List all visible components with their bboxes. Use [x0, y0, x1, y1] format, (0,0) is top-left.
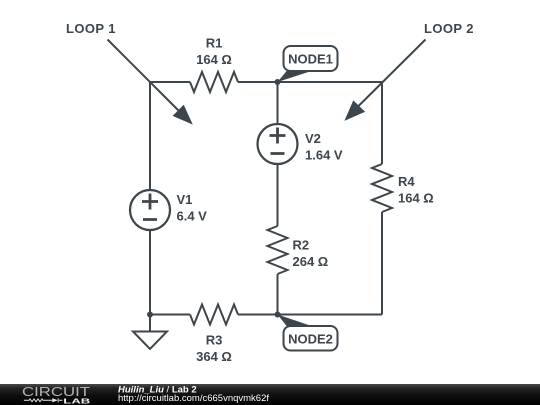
svg-text:R1: R1 [206, 36, 223, 51]
svg-text:NODE2: NODE2 [288, 332, 333, 347]
svg-text:1.64 V: 1.64 V [305, 148, 343, 163]
svg-text:R2: R2 [293, 238, 310, 253]
svg-text:NODE1: NODE1 [288, 52, 333, 67]
svg-text:LOOP 1: LOOP 1 [66, 21, 116, 36]
svg-text:V2: V2 [305, 131, 321, 146]
svg-text:6.4 V: 6.4 V [177, 209, 208, 224]
svg-text:164 Ω: 164 Ω [196, 52, 232, 67]
svg-text:164 Ω: 164 Ω [398, 191, 434, 206]
svg-text:LAB: LAB [63, 397, 91, 405]
svg-text:V1: V1 [177, 192, 193, 207]
svg-text:364 Ω: 364 Ω [196, 349, 232, 364]
svg-text:R4: R4 [398, 174, 415, 189]
svg-text:http://circuitlab.com/c665vnqv: http://circuitlab.com/c665vnqvmk62f [118, 393, 269, 404]
svg-text:264 Ω: 264 Ω [293, 254, 329, 269]
svg-text:LOOP 2: LOOP 2 [424, 21, 474, 36]
svg-text:R3: R3 [206, 333, 223, 348]
